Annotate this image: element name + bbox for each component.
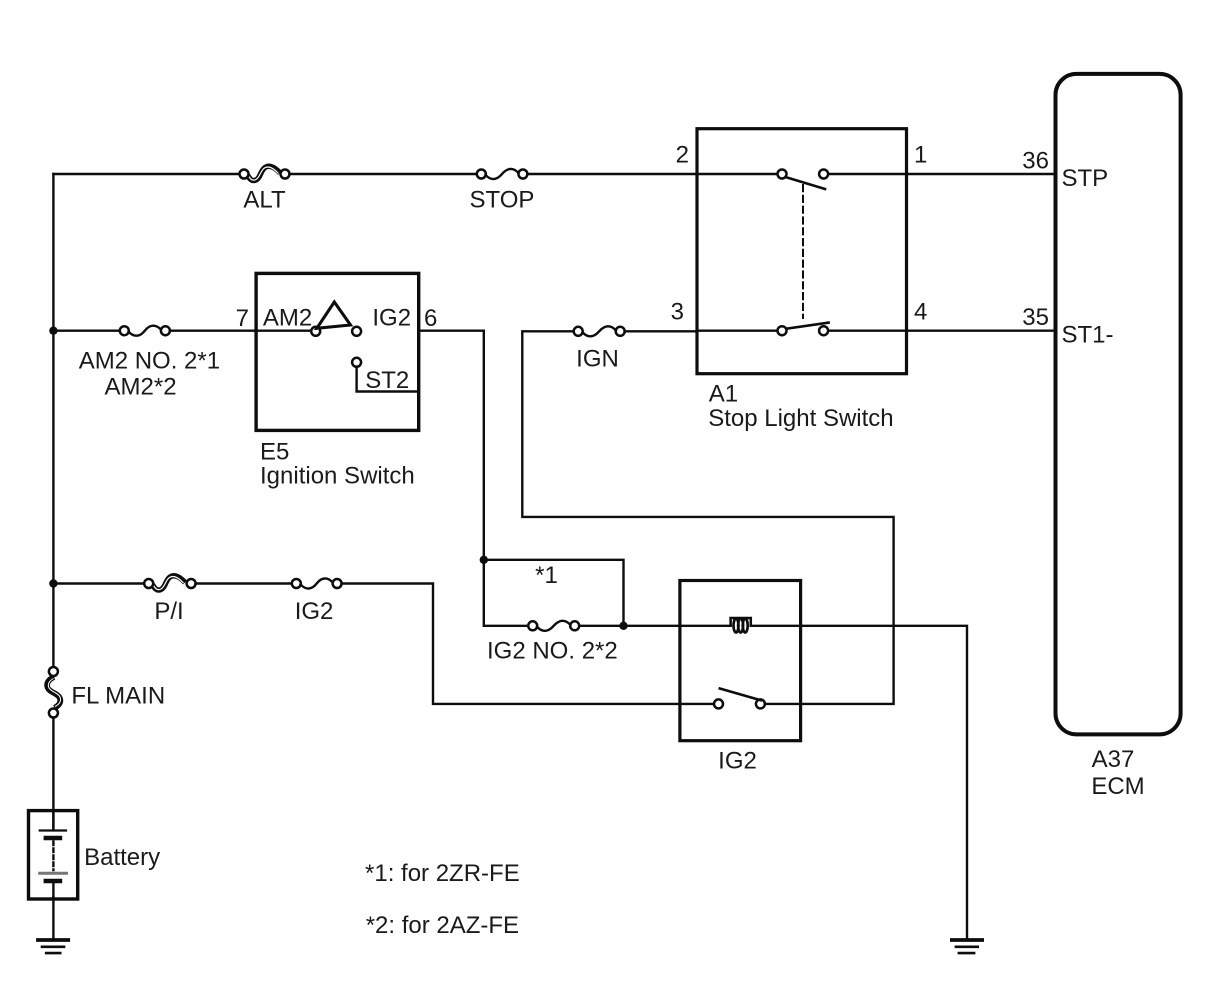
svg-text:IG2: IG2 — [295, 598, 334, 625]
box A1 stop light switch — [697, 129, 907, 374]
svg-text:STP: STP — [1062, 165, 1109, 192]
wire: A1 pin 1 to ECM pin 36 — [907, 173, 1056, 175]
svg-text:E5: E5 — [260, 439, 289, 466]
switch A1 upper arm — [786, 177, 825, 189]
ground (battery) — [38, 940, 68, 953]
wire: ST2 stub — [357, 367, 419, 392]
svg-text:Battery: Battery — [84, 844, 160, 871]
wire: IGN fuse to A1 pin 3 — [625, 330, 697, 332]
wire: top row from bus to ALT fuse — [53, 173, 239, 175]
svg-text:*2: for 2AZ-FE: *2: for 2AZ-FE — [366, 912, 519, 939]
wire: A1 lower contact to pin 4 — [828, 330, 906, 332]
svg-text:FL MAIN: FL MAIN — [71, 683, 165, 710]
svg-text:IG2 NO. 2*2: IG2 NO. 2*2 — [487, 638, 618, 665]
svg-text:3: 3 — [671, 299, 684, 326]
svg-text:STOP: STOP — [470, 187, 535, 214]
svg-text:AM2: AM2 — [263, 305, 312, 332]
wire: A1 upper contact to pin 1 — [828, 173, 906, 175]
svg-text:A1: A1 — [709, 380, 738, 407]
ignition switch arm (triangle) — [317, 302, 351, 328]
ground (relay coil) — [952, 940, 982, 953]
svg-text:35: 35 — [1022, 304, 1049, 331]
battery plates — [40, 812, 67, 897]
wire: bus to P/I fuse — [53, 582, 144, 584]
wire: A1 pin 4 to ECM pin 35 — [907, 330, 1056, 332]
svg-text:Ignition Switch: Ignition Switch — [260, 463, 415, 490]
svg-text:36: 36 — [1022, 148, 1049, 175]
junction: *1 box bottom-right — [619, 622, 627, 630]
ignition switch contacts — [311, 327, 320, 336]
svg-text:IGN: IGN — [576, 345, 619, 372]
svg-text:P/I: P/I — [154, 598, 183, 625]
svg-text:IG2: IG2 — [718, 748, 757, 775]
fusible link P/I — [144, 576, 195, 590]
switch A1 upper contacts — [778, 170, 787, 179]
wire: bus to AM2 fuse — [53, 330, 120, 332]
contact ST2 — [352, 358, 361, 367]
wire: pin 6 down to *1 junction — [483, 331, 485, 560]
wire: FL MAIN to battery — [52, 717, 54, 830]
wire: E5 pin 6 out — [419, 330, 484, 332]
svg-text:ECM: ECM — [1091, 773, 1144, 800]
wire: battery bus vertical (left) — [52, 174, 54, 667]
relay coil wire left — [680, 625, 731, 627]
switch A1 lower contacts — [778, 326, 787, 335]
fuse IGN — [574, 326, 625, 336]
wire: AM2 fuse to E5 pin 7 — [170, 330, 256, 332]
wire: relay switch right to box edge — [765, 703, 801, 705]
wire: ALT to STOP fuse — [289, 173, 477, 175]
wire: battery to ground — [52, 897, 54, 938]
wire: *1 bypass top — [484, 560, 624, 626]
svg-text:7: 7 — [236, 305, 249, 332]
svg-text:AM2 NO. 2*1: AM2 NO. 2*1 — [79, 348, 220, 375]
wire: IG2 fuse right, corner down to relay switch — [342, 584, 715, 704]
junction: bus / AM2 row — [49, 327, 57, 335]
svg-text:2: 2 — [676, 142, 689, 169]
svg-text:*1: *1 — [535, 562, 558, 589]
svg-text:ALT: ALT — [243, 187, 286, 214]
wire: junction to relay coil — [624, 625, 680, 627]
wire: inside E5 to left contact — [256, 330, 311, 332]
dashed link between A1 switches — [802, 185, 804, 318]
wire: inside A1 pin 3 to lower contact — [697, 330, 777, 332]
box E5 ignition switch — [256, 273, 419, 430]
junction: bus / P-I row — [49, 579, 57, 587]
relay switch contacts — [714, 699, 723, 708]
svg-text:4: 4 — [914, 299, 927, 326]
wire: IGN branch vertical + to A1 pin 3 — [522, 331, 893, 704]
svg-text:6: 6 — [424, 305, 437, 332]
relay switch arm — [720, 689, 761, 701]
svg-text:ST1-: ST1- — [1062, 322, 1114, 349]
svg-text:Stop Light Switch: Stop Light Switch — [708, 405, 893, 432]
junction: *1 box top-left — [480, 556, 488, 564]
fusible link FL MAIN — [47, 667, 60, 718]
relay coil — [731, 618, 751, 633]
svg-text:*1: for 2ZR-FE: *1: for 2ZR-FE — [365, 860, 520, 887]
fuse STOP — [477, 169, 528, 179]
svg-text:AM2*2: AM2*2 — [105, 373, 177, 400]
wire: P/I to IG2 fuse — [196, 582, 292, 584]
wire: fuse to junction — [579, 625, 623, 627]
relay coil wire right to ground drop — [751, 626, 967, 938]
box IG2 relay — [680, 581, 801, 741]
battery box — [29, 811, 78, 899]
wire: inside A1, pin 2 to switch contact — [697, 173, 777, 175]
svg-text:A37: A37 — [1092, 746, 1135, 773]
svg-text:1: 1 — [914, 142, 927, 169]
wire: *1 left side down to fuse — [484, 560, 528, 626]
box ECM A37 — [1056, 74, 1181, 735]
fuse AM2 NO. 2 — [120, 326, 170, 336]
fusible link ALT — [240, 166, 290, 180]
switch A1 lower arm — [787, 323, 829, 329]
fuse IG2 — [292, 578, 342, 588]
wire: STOP to A1 pin 2 — [527, 173, 697, 175]
fuse IG2 NO. 2 — [528, 621, 579, 631]
svg-text:IG2: IG2 — [372, 305, 411, 332]
svg-text:ST2: ST2 — [365, 367, 409, 394]
